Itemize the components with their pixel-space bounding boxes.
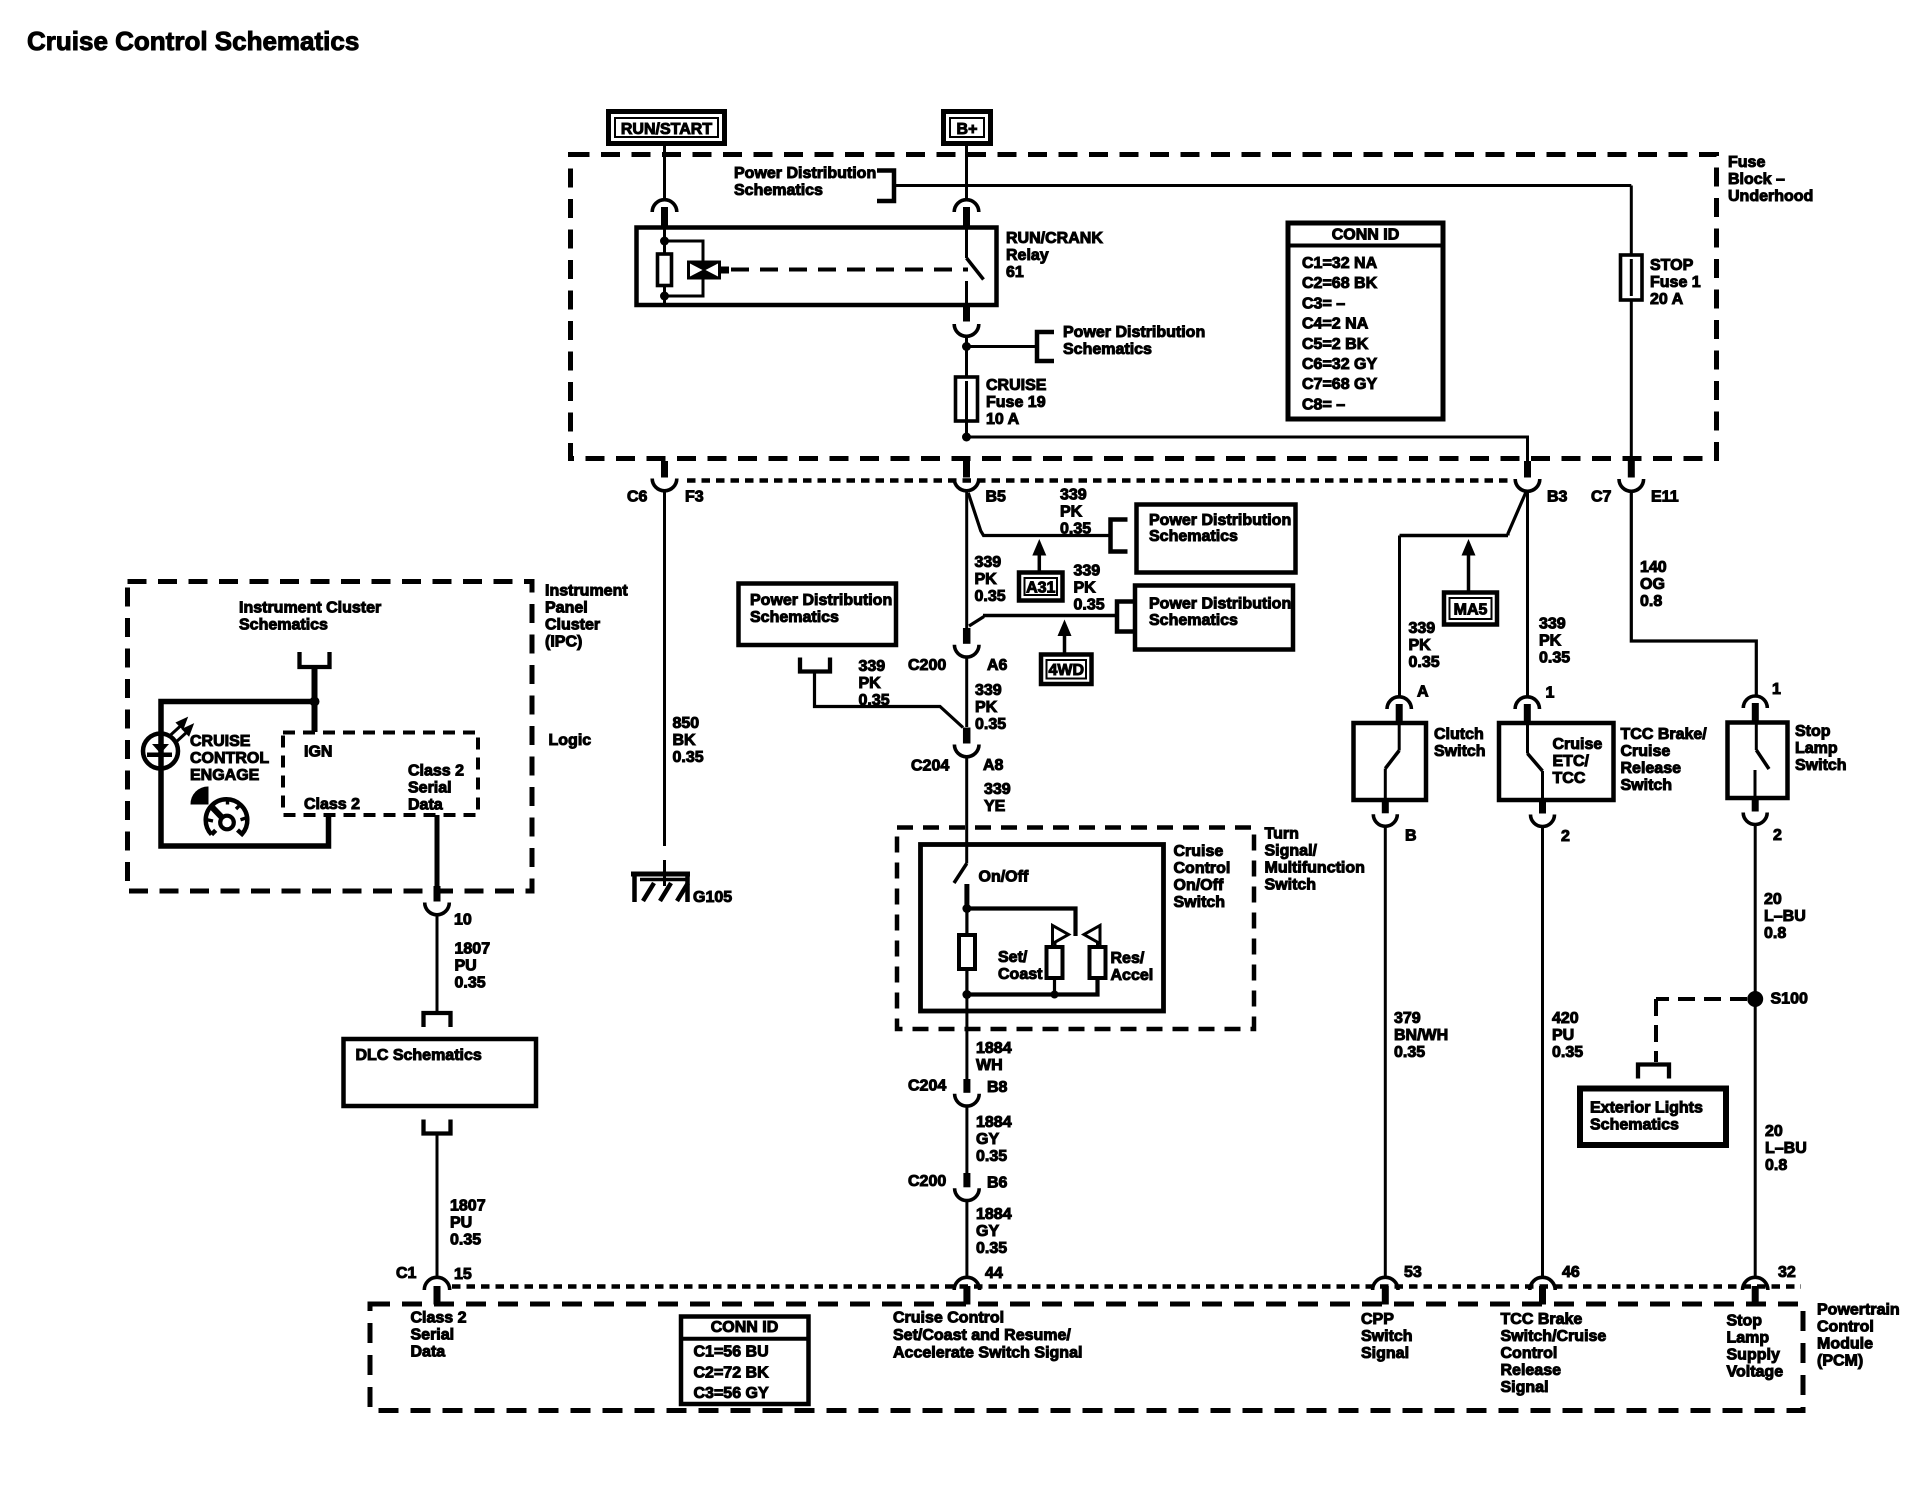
code box A31 (1019, 573, 1063, 601)
cruise control on/off switch box (921, 845, 1164, 1012)
wire RUN/START to relay (663, 146, 666, 201)
svg-text:Signal: Signal (1361, 1345, 1409, 1362)
svg-text:Signal/: Signal/ (1265, 843, 1318, 860)
svg-text:0.35: 0.35 (976, 1148, 1007, 1165)
svg-text:1807: 1807 (450, 1198, 486, 1215)
svg-text:20 A: 20 A (1650, 291, 1684, 308)
clutch switch contact (1398, 723, 1401, 751)
wire stop lamp to PCM 32 (1754, 825, 1757, 1279)
wire left power distribution to C204 (815, 672, 964, 728)
code box 4WD (1041, 655, 1092, 685)
svg-text:PK: PK (975, 699, 998, 716)
svg-text:Switch: Switch (1621, 777, 1673, 794)
connector C6 at relay top (dome) (652, 200, 677, 212)
svg-text:Class 2: Class 2 (304, 796, 360, 813)
resistor on main branch (959, 935, 975, 969)
svg-text:Power Distribution: Power Distribution (1063, 324, 1205, 341)
svg-text:0.35: 0.35 (975, 588, 1006, 605)
wire junction to bracket (967, 345, 1037, 348)
stop lamp switch box (1728, 723, 1788, 799)
svg-text:C2=68 BK: C2=68 BK (1302, 275, 1378, 292)
code box MA5 (1444, 593, 1497, 625)
wire to PCM pin 44 (965, 1201, 968, 1279)
set/coast contact arrow (1053, 926, 1069, 944)
svg-text:46: 46 (1562, 1264, 1580, 1281)
svg-text:C8= –: C8= – (1302, 396, 1345, 413)
svg-text:L–BU: L–BU (1764, 908, 1806, 925)
svg-text:Power Distribution: Power Distribution (1149, 512, 1291, 529)
svg-text:C7=68 GY: C7=68 GY (1302, 376, 1377, 393)
relay coil pin wire (663, 228, 666, 254)
svg-text:140: 140 (1640, 559, 1667, 576)
svg-text:339: 339 (1409, 620, 1436, 637)
svg-text:339: 339 (1074, 563, 1101, 580)
svg-text:Logic: Logic (549, 732, 592, 749)
svg-text:(PCM): (PCM) (1817, 1353, 1863, 1370)
junction dot coil bottom (660, 292, 669, 301)
svg-text:RUN/CRANK: RUN/CRANK (1006, 230, 1103, 247)
bracket to Power Distribution Schematics (lower right) (1117, 602, 1134, 632)
svg-text:0.35: 0.35 (1409, 654, 1440, 671)
svg-text:2: 2 (1561, 828, 1570, 845)
wire C204 to on/off switch (965, 757, 968, 845)
wire from bracket to stop fuse column (894, 184, 1631, 187)
svg-text:4WD: 4WD (1048, 662, 1084, 679)
wire class 2 serial data down (435, 815, 440, 889)
wire relay to junction (965, 336, 968, 348)
svg-text:Set/: Set/ (998, 949, 1028, 966)
svg-text:PK: PK (1409, 637, 1432, 654)
svg-text:PU: PU (455, 958, 477, 975)
svg-text:Switch: Switch (1265, 877, 1317, 894)
connector IPC pin 10 (stub+cup) (434, 886, 441, 902)
connector clutch A (dome+stub) (1387, 697, 1411, 709)
wire valve bottom loop (666, 280, 703, 297)
res/accel resistor (1096, 942, 1099, 948)
svg-text:Signal: Signal (1501, 1379, 1549, 1396)
connector stop pin2 (stub+cup) (1752, 798, 1759, 812)
ETC switch contact (1526, 723, 1529, 754)
wire C6 to ground G105 (663, 491, 666, 846)
set/coast resistor (1054, 942, 1057, 948)
svg-text:Control: Control (1174, 860, 1231, 877)
wire coil bottom (663, 286, 666, 306)
set/coast resume rail top (967, 909, 1076, 937)
svg-text:Class 2: Class 2 (411, 1310, 467, 1327)
junction dot to power distribution (962, 342, 971, 351)
connector clutch B (stub+cup) (1382, 800, 1389, 813)
gauge icon (206, 799, 248, 834)
res/accel contact arrow (1084, 926, 1100, 944)
svg-text:1: 1 (1546, 685, 1555, 702)
svg-text:Switch: Switch (1361, 1328, 1413, 1345)
svg-text:B5: B5 (986, 489, 1007, 506)
svg-text:A6: A6 (987, 657, 1008, 674)
svg-text:Accelerate Switch Signal: Accelerate Switch Signal (893, 1345, 1082, 1362)
svg-text:Fuse 19: Fuse 19 (986, 394, 1046, 411)
svg-text:PK: PK (1539, 633, 1562, 650)
svg-text:44: 44 (985, 1265, 1003, 1282)
svg-text:Lamp: Lamp (1795, 740, 1838, 757)
connector at relay top B+ pin (dome) (954, 200, 979, 212)
connector below relay (stub+cup) (963, 305, 970, 322)
svg-text:Panel: Panel (545, 600, 588, 617)
connector B3 (stub+cup) (1524, 461, 1531, 478)
arrow A31 (1032, 539, 1046, 556)
svg-text:B8: B8 (987, 1079, 1008, 1096)
svg-text:ETC/: ETC/ (1553, 753, 1590, 770)
svg-text:Power Distribution: Power Distribution (734, 165, 876, 182)
IGN pin stub (312, 702, 318, 733)
svg-text:CRUISE: CRUISE (986, 377, 1047, 394)
svg-text:0.35: 0.35 (450, 1232, 481, 1249)
svg-text:Voltage: Voltage (1727, 1364, 1784, 1381)
svg-text:B6: B6 (987, 1175, 1008, 1192)
svg-text:Schematics: Schematics (750, 609, 839, 626)
svg-text:PK: PK (1060, 504, 1083, 521)
svg-text:TCC Brake/: TCC Brake/ (1621, 726, 1708, 743)
wire ETC to PCM 46 (1541, 827, 1544, 1279)
Exterior Lights Schematics box (1580, 1089, 1726, 1146)
svg-text:On/Off: On/Off (979, 869, 1029, 886)
svg-text:PU: PU (450, 1215, 472, 1232)
wire branch to solenoid valve (665, 241, 704, 261)
relay switch contact bottom (965, 281, 968, 305)
svg-text:C200: C200 (908, 1173, 946, 1190)
wire to B3 column (967, 437, 1528, 463)
arrow MA5 (1462, 539, 1476, 556)
svg-text:1884: 1884 (976, 1114, 1012, 1131)
svg-text:ENGAGE: ENGAGE (190, 767, 260, 784)
relay solenoid valve symbol (687, 261, 721, 280)
svg-text:DLC Schematics: DLC Schematics (356, 1047, 482, 1064)
svg-text:420: 420 (1552, 1010, 1579, 1027)
svg-text:S100: S100 (1771, 991, 1808, 1008)
svg-text:IGN: IGN (304, 744, 332, 761)
svg-text:BK: BK (673, 732, 697, 749)
turn signal multifunction switch dashed box (897, 828, 1254, 1030)
PCM inline connector dotted line (452, 1284, 1801, 1289)
bracket below left power distribution box (800, 658, 830, 672)
wire B5 down to C200 (965, 491, 968, 629)
svg-text:Accel: Accel (1111, 967, 1154, 984)
connector pin 53 (dome+stub) (1373, 1277, 1398, 1290)
svg-text:C204: C204 (911, 758, 949, 775)
svg-text:RUN/START: RUN/START (621, 121, 712, 138)
wire stop fuse column (1630, 186, 1633, 464)
wire B3 jog to clutch switch (1508, 492, 1526, 536)
svg-text:850: 850 (673, 715, 700, 732)
wire B+ down (965, 146, 968, 201)
svg-text:C3= –: C3= – (1302, 295, 1345, 312)
svg-text:OG: OG (1640, 576, 1665, 593)
box Power Distribution Schematics (left) (739, 584, 897, 646)
svg-text:Set/Coast and Resume/: Set/Coast and Resume/ (893, 1327, 1071, 1344)
svg-text:CRUISE: CRUISE (190, 733, 251, 750)
svg-text:Serial: Serial (411, 1327, 455, 1344)
cruise control engage indicator LED (143, 734, 178, 769)
svg-text:339: 339 (975, 682, 1002, 699)
svg-text:339: 339 (1060, 487, 1087, 504)
svg-text:0.35: 0.35 (975, 716, 1006, 733)
junction dot on/off (962, 904, 971, 913)
svg-text:1884: 1884 (976, 1040, 1012, 1057)
cruise ETC/TCC switch box (1499, 723, 1614, 800)
svg-text:A: A (1417, 684, 1429, 701)
svg-text:CONN ID: CONN ID (711, 1319, 779, 1336)
ground G105 symbol (631, 872, 690, 877)
svg-text:Schematics: Schematics (1590, 1117, 1679, 1134)
connector C200/B6 (stub+cup) (963, 1173, 970, 1187)
svg-text:STOP: STOP (1650, 257, 1694, 274)
fuse STOP Fuse 1 (1621, 255, 1643, 300)
bracket to Power Distribution Schematics (upper right) (1111, 520, 1128, 552)
svg-text:E11: E11 (1651, 489, 1679, 506)
svg-text:TCC Brake: TCC Brake (1501, 1311, 1583, 1328)
svg-text:F3: F3 (685, 489, 704, 506)
svg-text:Switch: Switch (1795, 757, 1847, 774)
svg-text:Cruise: Cruise (1553, 736, 1603, 753)
junction dot bottom rail (962, 990, 971, 999)
svg-text:C1=56 BU: C1=56 BU (694, 1344, 769, 1361)
svg-text:C3=56 GY: C3=56 GY (694, 1385, 769, 1402)
svg-text:Class 2: Class 2 (408, 763, 464, 780)
svg-text:C4=2 NA: C4=2 NA (1302, 316, 1369, 333)
svg-text:Schematics: Schematics (239, 617, 328, 634)
junction dot below fuse (962, 433, 971, 442)
svg-text:C1=32 NA: C1=32 NA (1302, 255, 1378, 272)
relay RUN/CRANK box (637, 228, 997, 306)
svg-text:0.35: 0.35 (1394, 1044, 1425, 1061)
svg-text:A31: A31 (1026, 579, 1055, 596)
svg-text:Release: Release (1501, 1362, 1562, 1379)
wire on/off to junction (964, 884, 969, 908)
svg-text:0.8: 0.8 (1640, 593, 1662, 610)
svg-text:C6: C6 (627, 489, 648, 506)
wire C200 to C204 (965, 657, 968, 727)
svg-text:Underhood: Underhood (1728, 188, 1813, 205)
svg-text:0.8: 0.8 (1764, 925, 1786, 942)
svg-text:Control: Control (1817, 1319, 1874, 1336)
svg-text:Data: Data (408, 797, 443, 814)
svg-text:32: 32 (1778, 1264, 1796, 1281)
svg-text:Cruise: Cruise (1174, 843, 1224, 860)
svg-text:Stop: Stop (1727, 1313, 1763, 1330)
svg-text:339: 339 (1539, 616, 1566, 633)
svg-text:PK: PK (975, 571, 998, 588)
svg-text:Block –: Block – (1728, 171, 1785, 188)
instrument panel cluster dashed box (128, 582, 533, 892)
bracket below DLC box (424, 1120, 451, 1134)
reference Power Distribution Schematics (mid) (1037, 332, 1054, 361)
wire junction to lower power distribution (969, 617, 984, 627)
svg-text:C204: C204 (908, 1078, 946, 1095)
svg-text:Release: Release (1621, 760, 1682, 777)
connector pin 32 (dome+stub) (1743, 1277, 1768, 1290)
svg-text:20: 20 (1764, 891, 1782, 908)
stop lamp switch contact (1755, 723, 1758, 751)
clutch switch box (1354, 723, 1427, 800)
svg-text:C7: C7 (1591, 489, 1612, 506)
svg-text:Schematics: Schematics (1063, 341, 1152, 358)
svg-text:CONN ID: CONN ID (1332, 227, 1400, 244)
svg-text:Schematics: Schematics (734, 182, 823, 199)
svg-text:PK: PK (1074, 580, 1097, 597)
terminal B+ (944, 112, 991, 144)
svg-text:TCC: TCC (1553, 770, 1586, 787)
fuse block underhood dashed box (571, 155, 1717, 459)
wire B3 down to cruise ETC switch (1526, 491, 1529, 697)
svg-text:B+: B+ (957, 121, 978, 138)
svg-text:Power Distribution: Power Distribution (1149, 596, 1291, 613)
connector C204/B8 (stub+cup) (963, 1079, 970, 1093)
svg-text:339: 339 (975, 554, 1002, 571)
svg-text:PU: PU (1552, 1027, 1574, 1044)
svg-text:(IPC): (IPC) (545, 634, 582, 651)
svg-text:Power Distribution: Power Distribution (750, 592, 892, 609)
svg-text:0.35: 0.35 (976, 1240, 1007, 1257)
svg-text:10: 10 (454, 912, 472, 929)
wire on/off switch output (965, 995, 968, 1080)
svg-text:Supply: Supply (1727, 1347, 1780, 1364)
bracket above DLC box (424, 1013, 451, 1027)
connector pin 44 (dome+stub) (954, 1277, 979, 1290)
logic dashed box (283, 733, 478, 816)
wire set/coast resistor down (1053, 978, 1056, 995)
svg-text:L–BU: L–BU (1765, 1140, 1807, 1157)
wire through CRUISE fuse (965, 347, 968, 438)
svg-text:GY: GY (976, 1223, 999, 1240)
svg-text:Control: Control (1501, 1345, 1558, 1362)
junction dot coil top (660, 237, 669, 246)
box Power Distribution Schematics (upper) (1137, 505, 1296, 573)
svg-text:CPP: CPP (1361, 1311, 1394, 1328)
svg-text:Serial: Serial (408, 780, 452, 797)
svg-text:Instrument: Instrument (545, 583, 628, 600)
relay actuation dashed line (731, 268, 968, 272)
svg-text:Lamp: Lamp (1727, 1330, 1770, 1347)
connector C204/A8 (stub+cup) (963, 728, 971, 744)
svg-text:C5=2 BK: C5=2 BK (1302, 336, 1369, 353)
svg-text:2: 2 (1773, 827, 1782, 844)
wire DLC to PCM C1 (436, 1134, 439, 1279)
relay switch blade (967, 258, 984, 280)
svg-text:Coast: Coast (998, 966, 1043, 983)
svg-text:Switch/Cruise: Switch/Cruise (1501, 1328, 1607, 1345)
arrow 4WD (1058, 620, 1072, 637)
terminal RUN/START (609, 112, 725, 144)
indicator light rays (170, 720, 186, 737)
svg-text:Powertrain: Powertrain (1817, 1302, 1900, 1319)
svg-text:0.35: 0.35 (1074, 597, 1105, 614)
svg-text:Exterior Lights: Exterior Lights (1590, 1100, 1703, 1117)
svg-text:Cruise Control Schematics: Cruise Control Schematics (27, 26, 359, 56)
svg-text:C2=72 BK: C2=72 BK (694, 1364, 770, 1381)
svg-text:C1: C1 (396, 1265, 417, 1282)
relay switch contact top (965, 228, 968, 258)
wire res/accel down + bottom rail (967, 978, 1098, 995)
connector table CONN ID (fuse block) (1288, 223, 1443, 419)
connector B5 (stub+cup) (963, 461, 970, 478)
connector C6/F3 (stub+cup) (661, 461, 668, 478)
svg-text:Cruise: Cruise (1621, 743, 1671, 760)
svg-text:0.8: 0.8 (1765, 1157, 1787, 1174)
DLC Schematics box (344, 1039, 537, 1106)
svg-text:On/Off: On/Off (1174, 877, 1224, 894)
svg-text:Instrument Cluster: Instrument Cluster (239, 600, 381, 617)
svg-text:339: 339 (859, 658, 886, 675)
svg-text:MA5: MA5 (1454, 601, 1488, 618)
svg-text:Multifunction: Multifunction (1265, 860, 1365, 877)
connector table CONN ID (PCM) (681, 1317, 809, 1405)
svg-text:Schematics: Schematics (1149, 612, 1238, 629)
wire clutch to PCM 53 (1384, 826, 1387, 1278)
powertrain control module dashed box (370, 1304, 1803, 1411)
svg-text:Stop: Stop (1795, 723, 1831, 740)
svg-text:0.35: 0.35 (859, 692, 890, 709)
sound icon (190, 786, 208, 804)
svg-text:Schematics: Schematics (1149, 528, 1238, 545)
svg-text:0.35: 0.35 (1552, 1044, 1583, 1061)
svg-text:Fuse 1: Fuse 1 (1650, 274, 1701, 291)
svg-text:C200: C200 (908, 657, 946, 674)
svg-text:Res/: Res/ (1111, 950, 1145, 967)
svg-text:YE: YE (984, 798, 1006, 815)
splice S100 (1747, 991, 1763, 1007)
svg-text:Cruise Control: Cruise Control (893, 1310, 1004, 1327)
bracket under Instrument Cluster Schematics (300, 652, 330, 667)
wire to C200/B6 (965, 1106, 968, 1173)
bracket above exterior lights box (1638, 1065, 1669, 1079)
svg-text:0.35: 0.35 (1539, 650, 1570, 667)
svg-text:PK: PK (859, 675, 882, 692)
svg-text:Switch: Switch (1174, 894, 1226, 911)
svg-text:Turn: Turn (1265, 826, 1299, 843)
svg-text:Fuse: Fuse (1728, 154, 1765, 171)
connector C200/A6 (stub+cup) (963, 628, 971, 644)
svg-text:20: 20 (1765, 1123, 1783, 1140)
connector stop pin1 (dome+stub) (1743, 696, 1767, 708)
svg-text:Cluster: Cluster (545, 617, 600, 634)
svg-text:B: B (1405, 828, 1417, 845)
svg-text:BN/WH: BN/WH (1394, 1027, 1448, 1044)
svg-text:379: 379 (1394, 1010, 1421, 1027)
inline connector dotted line row (687, 478, 1512, 483)
connector pin 46 (dome+stub) (1530, 1277, 1555, 1290)
on/off switch contact (965, 845, 968, 864)
svg-text:Clutch: Clutch (1434, 726, 1484, 743)
wire to cruise indicator (161, 702, 329, 847)
connector E11 / C7 (stub+cup) (1628, 461, 1635, 478)
wire B5 branch diagonal to power distribution (968, 493, 1108, 536)
connector C1/15 (dome+stub) (424, 1277, 449, 1290)
svg-text:C6=32 GY: C6=32 GY (1302, 356, 1377, 373)
connector ETC pin1 (dome+stub) (1515, 697, 1539, 709)
svg-text:15: 15 (454, 1266, 472, 1283)
junction dot IGN branch (310, 697, 320, 707)
svg-text:61: 61 (1006, 264, 1024, 281)
svg-text:1: 1 (1772, 681, 1781, 698)
svg-text:GY: GY (976, 1131, 999, 1148)
box Power Distribution Schematics (lower) (1135, 586, 1293, 650)
svg-text:Relay: Relay (1006, 247, 1049, 264)
svg-text:WH: WH (976, 1057, 1003, 1074)
svg-text:53: 53 (1404, 1264, 1422, 1281)
fuse CRUISE Fuse 19 (956, 377, 978, 421)
wire to DLC bracket (436, 915, 439, 1014)
svg-text:1884: 1884 (976, 1206, 1012, 1223)
svg-text:A8: A8 (983, 757, 1004, 774)
